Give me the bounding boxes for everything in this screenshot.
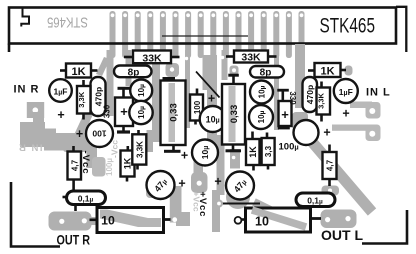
- trace to 1K left: [96, 57, 110, 76]
- wire 33K R leads: [226, 55, 234, 58]
- svg-text:+: +: [181, 148, 188, 162]
- wire 3,3K R leads: [320, 82, 323, 88]
- capacitor 8p (right): [250, 66, 284, 79]
- svg-text:10µ: 10µ: [137, 84, 146, 97]
- wire 100 C leads: [196, 89, 199, 95]
- svg-text:+Vcc: +Vcc: [192, 192, 202, 212]
- capacitor 10u (right top): [250, 81, 273, 104]
- wire 0,1u R stub: [308, 207, 311, 210]
- IC key notch: [21, 8, 29, 27]
- wire 330 L top T lead: [122, 90, 125, 98]
- capacitor 100u (left, label inside): [86, 120, 113, 147]
- IC top edge extension to right border: [396, 7, 406, 52]
- pad right of 1K R: [345, 66, 353, 76]
- svg-text:10: 10: [255, 215, 269, 229]
- wire 4,7 L leads: [72, 146, 75, 152]
- wire 0,33 R leads: [228, 74, 239, 77]
- trace behind caps L: [126, 50, 132, 86]
- IN R pad 2: [28, 125, 46, 140]
- PCB border bottom-right corner: [362, 210, 407, 244]
- trace above 4,7 L: [63, 140, 89, 152]
- wire 10 R leads: [241, 218, 246, 221]
- svg-text:OUT R: OUT R: [57, 232, 91, 248]
- pin 16: [299, 11, 305, 58]
- capacitor 47u (right): [226, 172, 254, 200]
- svg-text:10µ: 10µ: [137, 106, 146, 119]
- svg-text:10µ: 10µ: [257, 110, 266, 123]
- svg-text:+: +: [178, 176, 185, 190]
- svg-text:+: +: [57, 108, 64, 122]
- IC STK465 outline border: [9, 8, 396, 44]
- svg-text:100µ: 100µ: [279, 142, 299, 153]
- capacitor 0,1u (right): [296, 193, 335, 207]
- resistor 3,3K (left top): [77, 86, 91, 114]
- pad below 4,7 R: [322, 186, 340, 196]
- pin 2: [122, 11, 128, 58]
- svg-text:470p: 470p: [305, 85, 315, 104]
- svg-text:STK465: STK465: [320, 15, 376, 38]
- IC internal line: [162, 35, 248, 37]
- resistor 3,3 (right vertical): [262, 138, 275, 165]
- pin 7: [185, 11, 191, 58]
- svg-text:33K: 33K: [142, 52, 162, 64]
- pin 10: [223, 11, 229, 58]
- resistor 4,7 (right): [323, 152, 337, 179]
- trace behind 330/470p R: [295, 44, 305, 108]
- resistor 4,7 (left): [68, 152, 82, 180]
- svg-text:OUT L: OUT L: [321, 227, 363, 243]
- grey copper traces: [20, 44, 381, 232]
- svg-text:+: +: [214, 174, 221, 188]
- wire 330 L bottom T lead: [122, 126, 125, 131]
- capacitor 10u (left bottom): [129, 101, 152, 124]
- svg-text:3,3K: 3,3K: [77, 91, 86, 107]
- svg-text:+: +: [281, 107, 289, 122]
- pad right of -Vcc: [92, 157, 106, 177]
- svg-text:+: +: [323, 125, 330, 139]
- wire 0,33 L leads: [163, 77, 176, 80]
- IN R pad 1: [27, 102, 44, 118]
- resistor 100 (center): [190, 95, 203, 121]
- svg-text:330: 330: [103, 104, 112, 118]
- PCB border bottom-left corner: [11, 182, 60, 247]
- pin 4: [147, 11, 153, 58]
- svg-text:0,33: 0,33: [229, 105, 240, 124]
- pin 1: [110, 11, 116, 58]
- node +Vcc pad: [215, 200, 223, 208]
- +Vcc trace column: [194, 155, 204, 192]
- svg-text:8p: 8p: [128, 67, 140, 78]
- svg-text:IN R: IN R: [14, 84, 40, 96]
- IN L pad 1: [350, 102, 372, 109]
- leads group left: [60, 57, 346, 220]
- pad right of 33K L: [166, 63, 180, 77]
- OUT L pads: [321, 210, 357, 229]
- trace below 3,3K center: [147, 130, 154, 152]
- trace right of 0,33 R top: [222, 50, 228, 80]
- pin 12: [248, 11, 254, 58]
- pin 11: [236, 11, 242, 58]
- svg-text:+: +: [208, 91, 215, 105]
- ground stair trace: [20, 122, 92, 151]
- pin 15: [286, 11, 292, 58]
- wire diagonal jumper: [196, 72, 220, 98]
- wire 4,7 R leads: [328, 145, 331, 153]
- resistor 0,33 (right): [222, 84, 245, 145]
- resistor 0,33 (left): [161, 81, 186, 146]
- capacitor 1uF (left): [49, 79, 72, 102]
- trace between caps and 0,33 L: [152, 50, 160, 142]
- svg-text:+: +: [76, 127, 83, 141]
- op-amp U1 STK465 package body (white fill): [9, 8, 396, 44]
- OUT R pads: [49, 212, 92, 231]
- pin 14: [273, 11, 279, 58]
- wire 1K R leads: [308, 69, 315, 72]
- diagonal arm to 3,3K: [73, 107, 95, 141]
- capacitor 10u (right bottom): [249, 105, 273, 129]
- IN L pad 2: [332, 125, 372, 131]
- svg-text:1K: 1K: [71, 66, 85, 78]
- capacitor 47u (left): [147, 171, 175, 199]
- pin 6: [173, 11, 179, 58]
- pin 8: [198, 11, 204, 58]
- capacitor 10u (left top): [130, 80, 152, 102]
- center wide trace: [203, 55, 218, 90]
- node pad 10 R left: [235, 217, 242, 224]
- resistor 10 (output L): [246, 208, 311, 232]
- big diagonal trace R: [307, 136, 372, 212]
- svg-text:-Vcc: -Vcc: [110, 140, 120, 158]
- wire horizontal to +Vcc pad: [219, 203, 260, 205]
- svg-text:10: 10: [101, 214, 115, 228]
- svg-text:3,3K: 3,3K: [317, 92, 326, 108]
- svg-text:100: 100: [92, 129, 106, 139]
- wire 3,3K C leads: [137, 130, 140, 134]
- resistor 10 (output R): [97, 208, 164, 233]
- svg-text:8p: 8p: [260, 68, 272, 79]
- svg-text:+: +: [342, 107, 349, 121]
- wire 10 L leads: [90, 219, 98, 222]
- resistor 1K (right vertical): [246, 139, 260, 165]
- trace below 0,33 R: [230, 149, 240, 169]
- resistor 33K (right): [234, 51, 268, 64]
- svg-text:+: +: [120, 104, 128, 119]
- trace through 10 R: [254, 202, 309, 229]
- svg-text:10µ: 10µ: [258, 85, 267, 98]
- wire 3,3 RV leads: [266, 133, 269, 139]
- trace to 100u R: [292, 112, 308, 130]
- plus marks: [57, 91, 349, 190]
- node pad dot: [185, 57, 188, 60]
- blob under 47u R: [226, 185, 250, 209]
- svg-text:0,33: 0,33: [169, 103, 180, 122]
- resistor 3,3K (center left): [132, 134, 146, 164]
- svg-text:4,7: 4,7: [326, 159, 335, 171]
- resistor 1K (input L): [315, 63, 341, 77]
- resistor 33K (left): [133, 51, 171, 65]
- pads left of 33K R: [230, 66, 239, 76]
- wire 330 R bottom T lead: [281, 126, 284, 128]
- svg-text:3,3K: 3,3K: [136, 141, 145, 158]
- trace left of 330 L: [107, 50, 114, 116]
- svg-text:IN R: IN R: [18, 142, 43, 153]
- IC pin stripes group: [110, 11, 305, 58]
- capacitor 330 rect with + (left): [115, 98, 133, 127]
- svg-text:-Vcc: -Vcc: [80, 151, 91, 175]
- svg-text:100µ: 100µ: [105, 158, 114, 176]
- trace column below 100u L: [87, 145, 98, 168]
- wire 1K L leads: [60, 69, 66, 72]
- resistor 3,3K (right top): [317, 88, 331, 115]
- capacitor 470p (right): [303, 77, 318, 112]
- capacitor 1uF (right): [334, 79, 358, 103]
- pin 3: [135, 11, 141, 58]
- trace left of 100 C: [185, 50, 190, 128]
- pin 5: [160, 11, 166, 58]
- svg-text:STK465: STK465: [47, 14, 88, 31]
- IN R pad stem: [33, 112, 44, 124]
- wire 0,1u L stubs: [63, 196, 67, 199]
- capacitor 10u (center bottom): [192, 140, 218, 166]
- capacitor 470p (left): [91, 77, 106, 116]
- trace left of 330 R: [274, 50, 279, 130]
- wire 33K L leads: [124, 56, 133, 59]
- capacitor 8p (left): [114, 66, 152, 79]
- svg-text:470p: 470p: [94, 87, 104, 106]
- wire 3,3K L leads: [82, 80, 85, 86]
- svg-text:IN L: IN L: [366, 87, 391, 99]
- svg-text:3,3: 3,3: [264, 145, 273, 157]
- capacitor 0,1u (left): [67, 191, 106, 205]
- capacitor 100u (right, empty): [294, 120, 319, 145]
- wire 330 R top T lead: [281, 92, 284, 102]
- trace 47u L to pad: [146, 188, 168, 198]
- IC left edge extension below: [8, 44, 11, 53]
- capacitor 330 rect with + (right): [279, 101, 292, 126]
- wire 1K RV leads: [251, 132, 254, 140]
- resistor 1K (input R): [66, 64, 91, 79]
- trace through 10 L: [91, 217, 163, 226]
- pin 13: [261, 11, 267, 58]
- svg-text:4,7: 4,7: [70, 159, 79, 171]
- pin 9: [210, 11, 216, 58]
- svg-text:330: 330: [288, 91, 297, 105]
- wire 1K LV leads: [127, 146, 130, 151]
- capacitor 10u (center top): [200, 106, 226, 132]
- resistor 1K (left vertical): [121, 151, 135, 177]
- svg-text:1K: 1K: [248, 146, 258, 158]
- svg-text:1K: 1K: [320, 65, 334, 77]
- svg-text:33K: 33K: [241, 51, 261, 63]
- center column trace +Vcc: [207, 88, 217, 150]
